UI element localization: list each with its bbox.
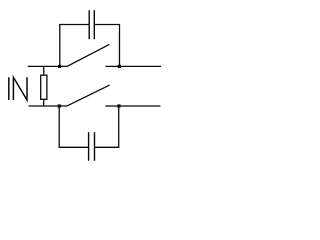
node junction dot bottom-right <box>117 104 120 107</box>
switch S1 lever (top) <box>67 44 109 66</box>
switch S2 lever (bottom) <box>67 85 110 106</box>
capacitor C1 right plate <box>93 10 95 39</box>
wire bottom rail left segment <box>29 105 68 107</box>
wire top loop right (from C1 right plate over and down) <box>95 25 120 67</box>
resistor R1 <box>41 75 47 99</box>
wire bottom rail right segment <box>105 105 160 107</box>
wire bottom loop right (from C2 right plate over and up) <box>95 106 119 147</box>
capacitor C1 left plate <box>88 10 90 39</box>
wire resistor bottom lead <box>43 99 45 106</box>
wire resistor top lead <box>43 66 45 75</box>
wire top rail left segment <box>28 65 67 67</box>
node junction dot top-right <box>118 65 121 68</box>
wire bottom loop left (down and over to C2 left plate) <box>59 106 88 147</box>
node junction dot bottom-left <box>58 104 61 107</box>
wire top loop left (up and over to C1 left plate) <box>60 25 89 67</box>
capacitor C2 right plate <box>94 132 96 161</box>
wire top rail right segment <box>106 65 162 67</box>
node junction dot top-left <box>58 65 61 68</box>
capacitor C2 left plate <box>88 132 90 161</box>
label IN <box>9 77 27 100</box>
